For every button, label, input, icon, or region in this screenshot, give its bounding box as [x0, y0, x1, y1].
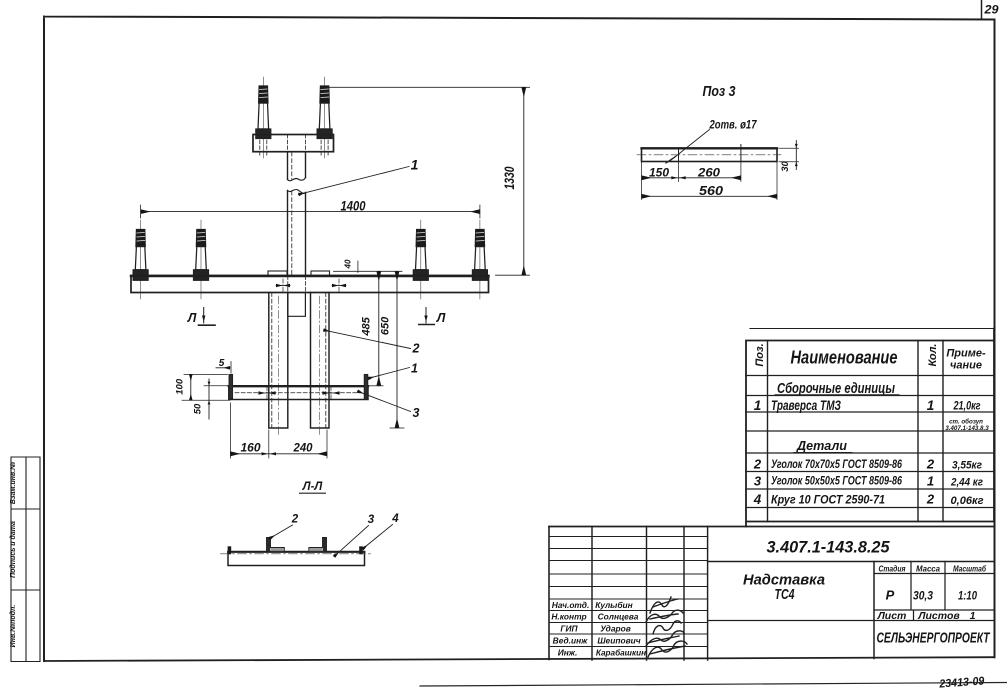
svg-text:2: 2 — [753, 457, 762, 472]
dim 150-260 middle arrows — [671, 176, 685, 179]
column stub below beam — [288, 293, 306, 317]
svg-text:4: 4 — [391, 513, 399, 525]
section leader 2 — [270, 525, 293, 539]
main pin 4 centerline — [479, 220, 481, 299]
top beam — [253, 135, 334, 152]
horizontal bar item3 — [229, 386, 368, 400]
svg-text:Масса: Масса — [916, 563, 940, 573]
svg-text:Р: Р — [886, 588, 895, 603]
signature scribble 4 — [646, 631, 684, 646]
leader 1 mid — [368, 368, 410, 379]
svg-text:Уголок 70х70х5 ГОСТ 8509-86: Уголок 70х70х5 ГОСТ 8509-86 — [771, 457, 902, 471]
bar bolt mark left — [259, 387, 276, 401]
poz3 hole 2 — [740, 145, 742, 162]
poz3 bar — [642, 148, 778, 162]
section leader 3 — [334, 526, 369, 557]
svg-text:560: 560 — [699, 184, 723, 198]
svg-text:Кулыбин: Кулыбин — [595, 600, 632, 610]
nadstavka divider — [873, 562, 875, 659]
sheet edge line bottom — [420, 683, 1007, 687]
svg-text:1330: 1330 — [502, 166, 517, 189]
svg-text:Вед.инж: Вед.инж — [553, 636, 588, 646]
pad left of column — [268, 271, 287, 276]
dim 50 — [193, 379, 229, 419]
dim 160-240 extensions — [230, 403, 327, 458]
bar bolt mark right — [323, 387, 340, 401]
svg-text:2отв. ø17: 2отв. ø17 — [709, 118, 758, 132]
main pin 3 centerline — [420, 220, 422, 299]
svg-text:1: 1 — [927, 474, 934, 489]
leader 1 top — [299, 167, 410, 195]
svg-text:3: 3 — [368, 514, 375, 526]
top pin right centerline — [324, 77, 326, 158]
right angle bar — [311, 293, 330, 429]
svg-text:1: 1 — [754, 398, 762, 413]
PARTS-TABLE — [746, 329, 994, 527]
main pin 2 centerline — [200, 220, 202, 299]
dim 100 — [175, 374, 231, 400]
svg-text:Приме-: Приме- — [946, 348, 986, 360]
poz3 bar top edge thick — [642, 147, 778, 149]
main beam — [131, 276, 489, 293]
section mark left arrow — [199, 308, 216, 326]
svg-text:160: 160 — [241, 441, 261, 455]
svg-text:Детали: Детали — [796, 438, 847, 453]
section title underline — [300, 492, 326, 494]
svg-text:23413-09: 23413-09 — [938, 675, 985, 690]
svg-text:Поз.: Поз. — [754, 343, 766, 366]
dim 160-240 line — [230, 453, 327, 455]
left angle bar — [269, 293, 288, 429]
main pin 3 — [413, 230, 428, 281]
section leader 4 — [363, 525, 393, 550]
svg-text:Нач.отд.: Нач.отд. — [552, 600, 590, 610]
poz3 extension lines — [642, 162, 778, 200]
rod end left — [228, 546, 232, 554]
svg-text:21,0кг: 21,0кг — [953, 399, 981, 413]
main pin 2 — [194, 230, 209, 281]
dim 650 bottom extension — [390, 427, 404, 429]
svg-text:1400: 1400 — [341, 198, 366, 214]
clip angle left — [267, 538, 285, 552]
svg-text:Наименование: Наименование — [791, 348, 898, 368]
dim 1330 line — [523, 87, 525, 275]
main pin 1 centerline — [140, 220, 142, 299]
svg-text:Масштаб: Масштаб — [953, 563, 987, 573]
svg-text:1: 1 — [927, 398, 935, 413]
beam bolt mark left — [276, 279, 290, 292]
svg-text:485: 485 — [361, 316, 373, 336]
dim 485 line — [378, 271, 380, 386]
svg-text:Инж.: Инж. — [558, 648, 578, 658]
svg-text:3.407.1-143.8.25: 3.407.1-143.8.25 — [767, 538, 891, 557]
doc number box line — [708, 561, 994, 563]
horizontal bar centerline — [235, 392, 360, 394]
svg-text:СЕЛЬЭНЕРГОПРОЕКТ: СЕЛЬЭНЕРГОПРОЕКТ — [877, 631, 991, 647]
svg-text:30: 30 — [780, 161, 791, 172]
left angle bar hidden line — [271, 293, 273, 429]
pad right of column — [311, 271, 330, 276]
dim 30 extensions — [779, 148, 799, 162]
leader 2otv d17 — [666, 118, 758, 164]
left angle bar centerline — [277, 296, 279, 437]
svg-text:1: 1 — [411, 362, 418, 376]
svg-text:Л-Л: Л-Л — [302, 481, 324, 493]
dim 650 line — [396, 271, 398, 428]
svg-text:30,3: 30,3 — [913, 591, 934, 603]
svg-text:чание: чание — [950, 360, 982, 372]
signature scribble 5 — [648, 641, 687, 657]
svg-text:Л: Л — [187, 311, 197, 325]
svg-text:Стадия: Стадия — [879, 563, 906, 573]
svg-text:3: 3 — [754, 474, 762, 489]
svg-text:1: 1 — [970, 610, 976, 622]
poz3 hole 1 — [678, 148, 680, 162]
SECTION-LL — [221, 481, 400, 566]
svg-text:2: 2 — [926, 492, 935, 507]
dim 1330 extension top — [328, 86, 530, 88]
svg-text:3,55кг: 3,55кг — [952, 460, 982, 472]
svg-text:150: 150 — [649, 166, 669, 180]
column hidden in beam — [288, 276, 306, 293]
svg-text:Кол.: Кол. — [927, 344, 939, 367]
left grid columns — [592, 527, 708, 661]
horizontal bar top edge thick — [229, 385, 368, 387]
dim 5 — [216, 358, 231, 373]
dim 30 arrows — [795, 144, 798, 166]
svg-text:ТС4: ТС4 — [775, 586, 795, 603]
svg-text:ГИП: ГИП — [560, 624, 578, 634]
svg-text:40: 40 — [344, 259, 353, 269]
left grid rows — [549, 537, 708, 647]
dim 30 line — [795, 141, 797, 170]
table row lines — [746, 376, 994, 508]
dim middle arrows — [262, 452, 276, 455]
column lower section — [288, 191, 306, 276]
svg-text:2: 2 — [412, 342, 420, 356]
svg-text:2,44 кг: 2,44 кг — [950, 477, 983, 489]
right tab — [364, 374, 368, 399]
svg-text:260: 260 — [697, 166, 720, 180]
svg-text:Листов: Листов — [917, 610, 960, 622]
svg-text:1: 1 — [411, 157, 419, 173]
main pin 4 — [472, 230, 487, 281]
rod end right — [359, 546, 363, 554]
MAIN-VIEW — [131, 77, 530, 458]
top pin left — [256, 86, 271, 139]
frame bottom line — [44, 657, 995, 661]
leader 2 — [324, 330, 411, 349]
leader 3 — [358, 391, 411, 411]
svg-text:650: 650 — [380, 316, 392, 335]
column hidden line — [291, 152, 293, 275]
svg-text:Инв.№подл.: Инв.№подл. — [9, 605, 17, 648]
svg-text:2: 2 — [291, 514, 299, 526]
right angle bar centerline — [319, 296, 321, 437]
svg-text:Карабашкин: Карабашкин — [596, 648, 646, 658]
svg-text:240: 240 — [293, 441, 313, 455]
signature scribble 2 — [646, 610, 683, 622]
svg-text:Ударов: Ударов — [600, 624, 631, 634]
section bar centerline — [221, 553, 373, 555]
clip angle right — [309, 538, 327, 552]
left tab — [229, 374, 233, 399]
dim 1400 line — [141, 211, 480, 213]
dim 150-260 line — [642, 177, 741, 179]
dim 40 extension line — [334, 261, 403, 273]
svg-text:29: 29 — [983, 3, 998, 17]
dim 1330 extension bottom — [496, 274, 530, 276]
top beam hidden lines — [260, 135, 328, 158]
svg-text:Взам.инв.№: Взам.инв.№ — [10, 462, 17, 504]
column break wavy lines — [288, 178, 306, 194]
svg-text:1:10: 1:10 — [958, 591, 977, 603]
svg-text:3: 3 — [413, 406, 420, 420]
svg-text:Поз 3: Поз 3 — [703, 83, 737, 100]
top pin right — [317, 86, 332, 139]
svg-text:4: 4 — [753, 492, 762, 507]
right angle bar hidden line — [325, 293, 327, 429]
section bar — [228, 552, 365, 566]
svg-text:Н.контр: Н.контр — [551, 612, 586, 622]
left margin stamp box — [11, 457, 40, 662]
table cap line — [750, 328, 994, 330]
main beam top edge thick — [131, 275, 489, 278]
signature scribble 3 — [653, 621, 681, 634]
dim 1400 extensions — [141, 205, 480, 218]
main pin 1 — [133, 230, 148, 281]
svg-text:0,06кг: 0,06кг — [951, 495, 984, 507]
svg-text:Круг 10 ГОСТ 2590-71: Круг 10 ГОСТ 2590-71 — [771, 493, 885, 507]
dim 560 line — [642, 195, 778, 197]
svg-text:2: 2 — [926, 457, 935, 472]
svg-text:50: 50 — [193, 403, 204, 414]
column upper section — [288, 152, 306, 180]
table column lines — [768, 341, 944, 522]
title block outer — [549, 526, 994, 528]
svg-text:Траверса ТМЗ: Траверса ТМЗ — [771, 397, 841, 413]
svg-text:3.407.1-143.8.3: 3.407.1-143.8.3 — [945, 425, 989, 432]
table outer border — [746, 329, 994, 527]
right columns grid — [874, 562, 994, 621]
top pin left centerline — [262, 77, 264, 158]
svg-text:Подпись и дата: Подпись и дата — [9, 521, 17, 578]
TITLE-BLOCK — [549, 527, 994, 661]
svg-text:Л: Л — [436, 311, 446, 325]
dim 485 bottom extension — [370, 385, 384, 387]
page number box — [981, 0, 983, 19]
svg-text:Шеипович: Шеипович — [597, 636, 640, 646]
svg-text:Солнцева: Солнцева — [598, 612, 639, 622]
section bar top thick — [228, 551, 365, 553]
section mark right arrow — [419, 308, 435, 325]
nadstavka bottom line — [708, 620, 874, 622]
poz3 bar centerline — [637, 154, 781, 156]
svg-text:Уголок 50х50х5 ГОСТ 8509-86: Уголок 50х50х5 ГОСТ 8509-86 — [771, 474, 902, 488]
POZ3-DETAIL — [637, 83, 799, 200]
signature scribble 1 — [650, 597, 678, 613]
svg-text:100: 100 — [175, 378, 186, 395]
beam bolt mark right — [332, 279, 346, 292]
svg-text:Лист: Лист — [877, 610, 907, 622]
